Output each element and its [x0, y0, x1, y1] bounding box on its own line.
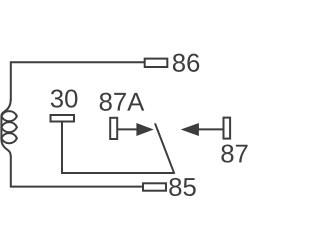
terminal 85: [143, 183, 166, 190]
arrow: normally-closed contact 87A: [118, 124, 153, 136]
wire: top horizontal and left vertical from coil to terminal 86: [11, 62, 144, 100]
terminal 87: [224, 118, 231, 139]
label 30: [51, 89, 78, 107]
wire: left lower vertical and bottom horizontal from coil to terminal 85: [11, 156, 142, 187]
coil (relay winding): [1, 99, 17, 157]
label 87A: [100, 93, 145, 111]
wire: common pole from terminal 30 down and right to armature pivot: [62, 122, 175, 173]
label 86: [173, 54, 199, 72]
terminal 30: [51, 115, 75, 122]
switch armature: [155, 123, 174, 174]
terminal 86: [145, 59, 168, 67]
label 85: [169, 178, 195, 196]
label 87: [221, 144, 247, 162]
arrow: normally-open contact 87: [182, 124, 223, 136]
terminal 87A: [110, 118, 117, 139]
